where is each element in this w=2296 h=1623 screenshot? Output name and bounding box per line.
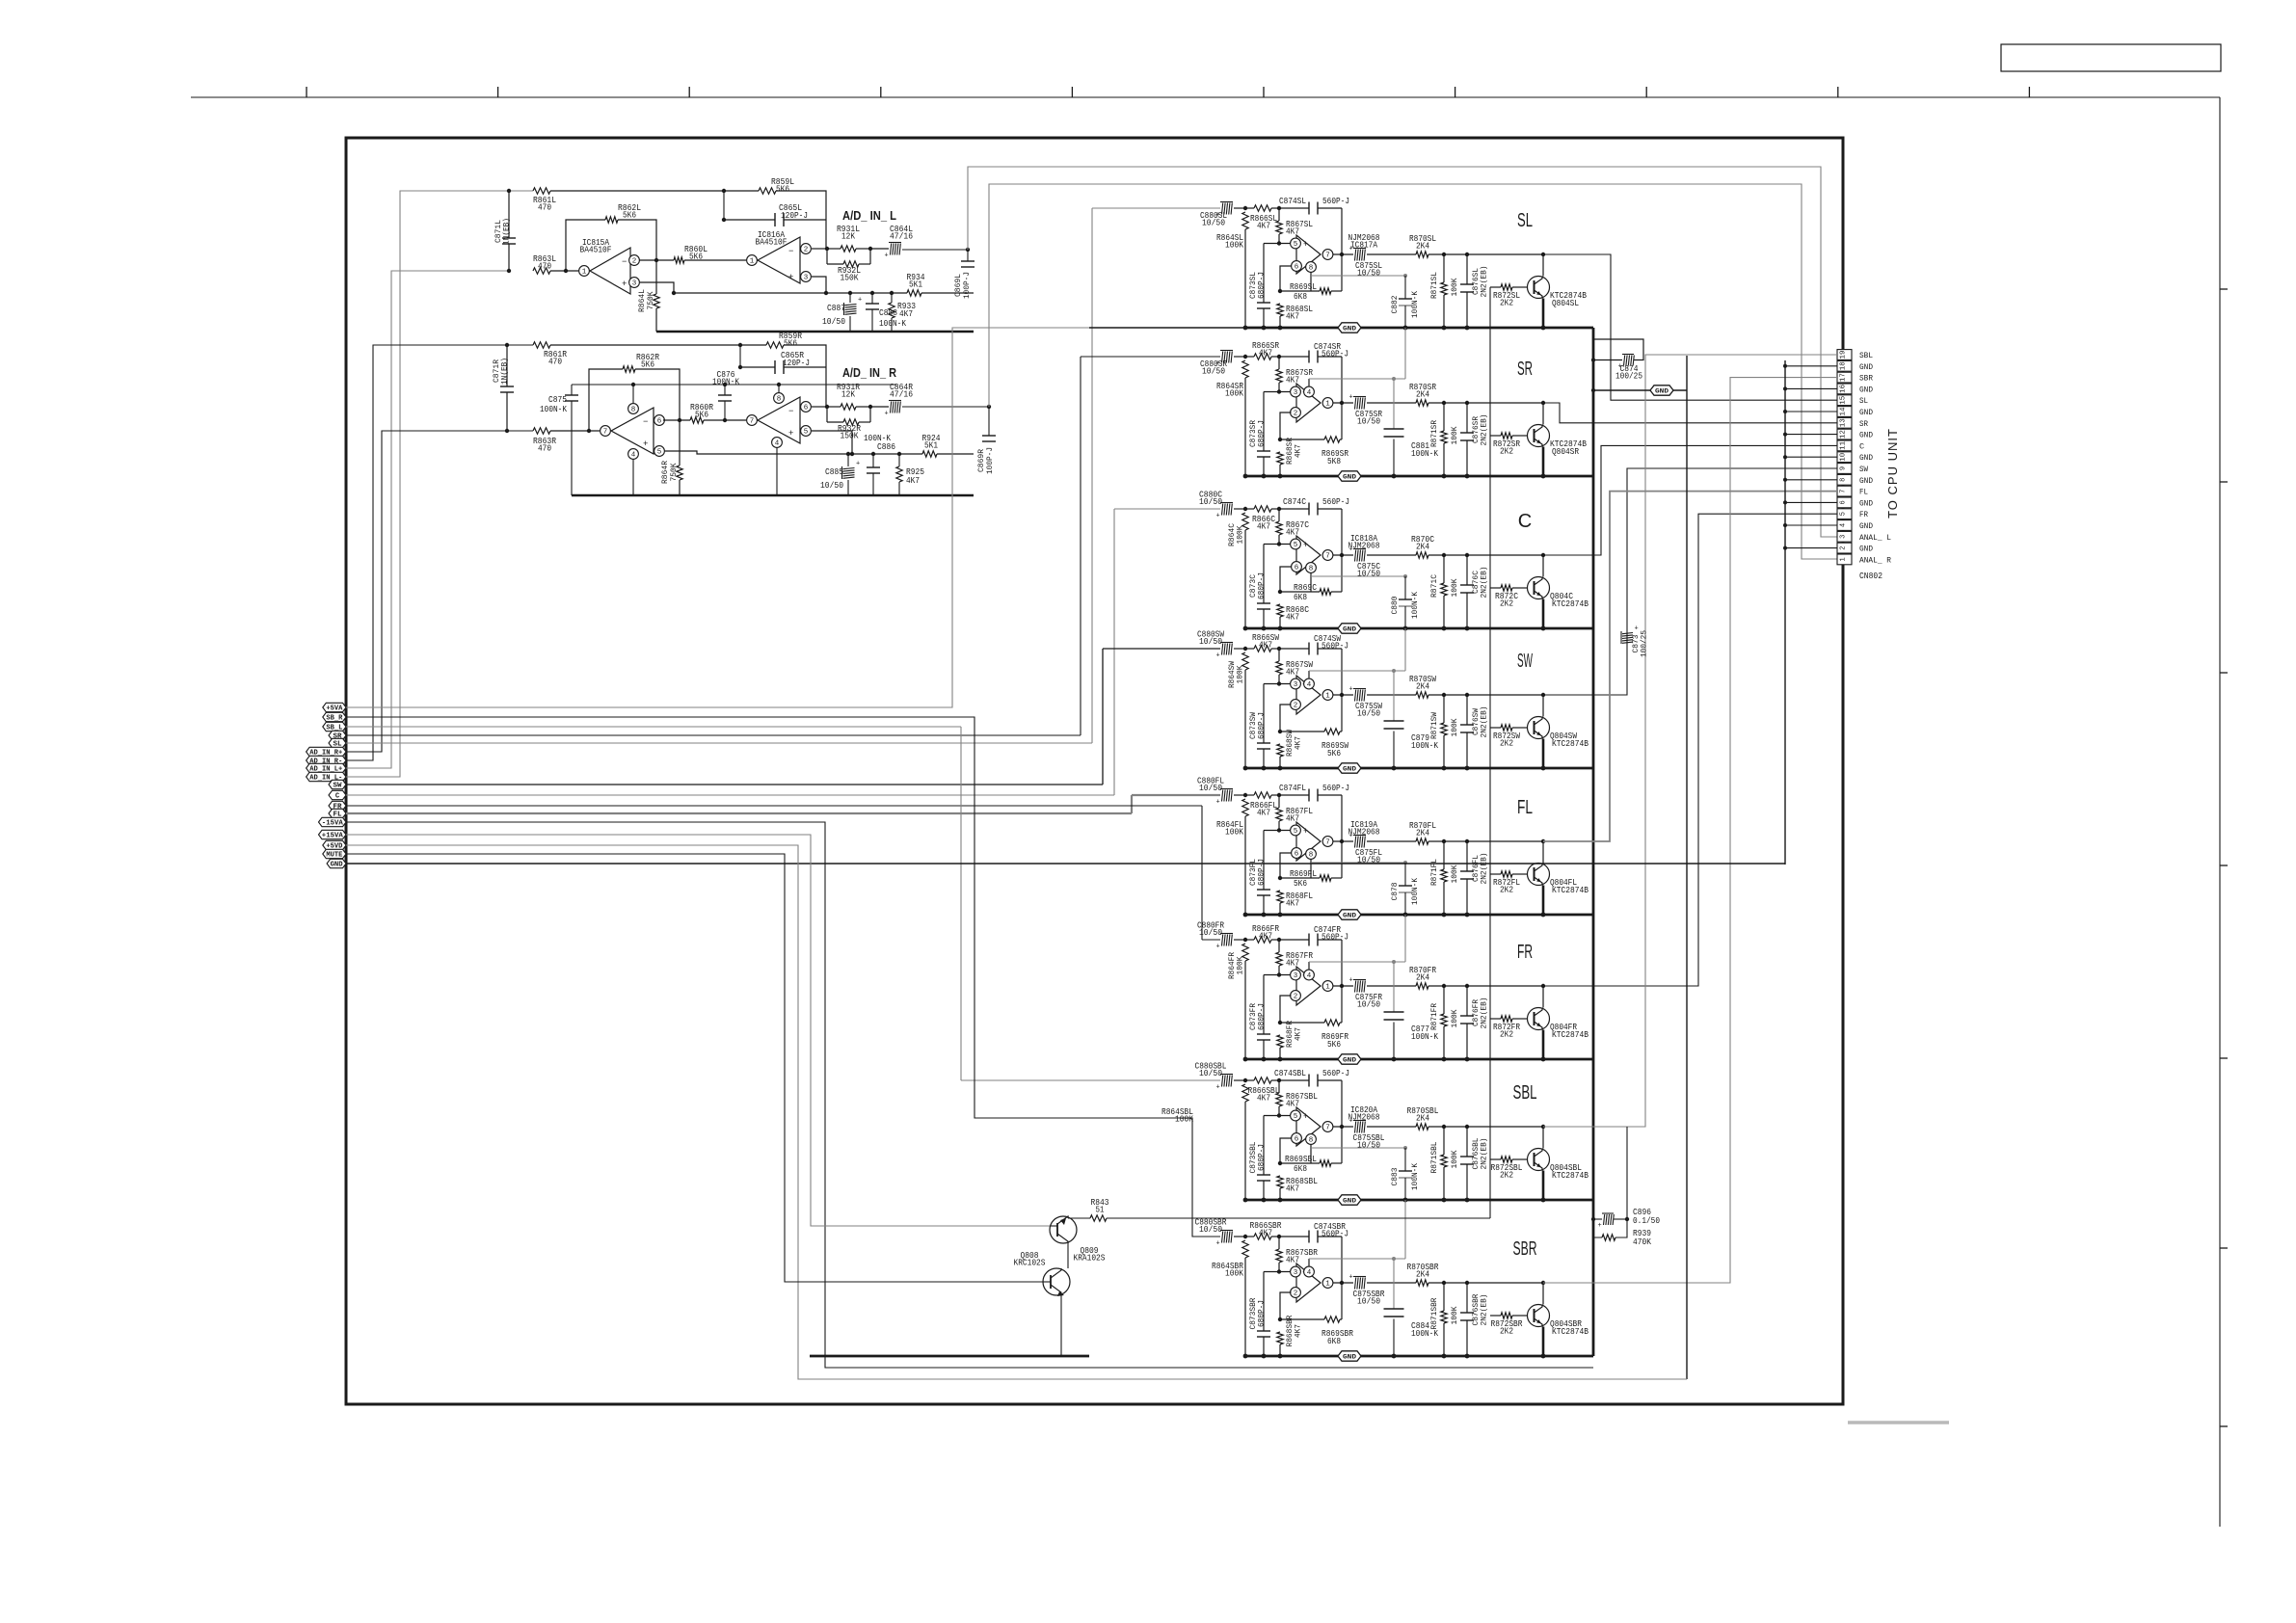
svg-text:2N2(EB): 2N2(EB) bbox=[1480, 853, 1489, 885]
capacitor C874SBR 560P-J bbox=[1279, 1236, 1309, 1237]
svg-text:7: 7 bbox=[603, 429, 608, 437]
svg-text:10/50: 10/50 bbox=[820, 481, 843, 491]
svg-text:Q804SL: Q804SL bbox=[1552, 298, 1579, 308]
wire AD L out to riser bbox=[902, 249, 968, 251]
wire input SBL bbox=[961, 1079, 1220, 1081]
resistor R843 51 bbox=[1068, 1217, 1090, 1219]
resistor R931R 12K bbox=[827, 406, 841, 408]
svg-text:SBR: SBR bbox=[1513, 1238, 1537, 1260]
svg-text:12: 12 bbox=[1840, 430, 1848, 439]
svg-text:5K6: 5K6 bbox=[776, 183, 789, 194]
svg-text:560P-J: 560P-J bbox=[1322, 1068, 1349, 1078]
svg-text:GND: GND bbox=[1343, 626, 1356, 634]
svg-text:C: C bbox=[1859, 441, 1864, 451]
wire input FL bbox=[1132, 794, 1220, 796]
svg-text:100K: 100K bbox=[1225, 387, 1243, 398]
wire SR out to pin 13 bbox=[1543, 403, 1837, 423]
resistor R859L 5K6 bbox=[724, 190, 759, 192]
capacitor C875C 10/50 bbox=[1333, 554, 1353, 556]
svg-text:8: 8 bbox=[777, 396, 782, 404]
GND bus SBL bbox=[1245, 1199, 1593, 1202]
op-amp IC FR bbox=[1296, 967, 1321, 1005]
svg-text:5: 5 bbox=[1840, 512, 1848, 516]
resistor R867SL 4K7 bbox=[1278, 208, 1280, 221]
svg-text:+: + bbox=[1216, 799, 1220, 807]
svg-text:3: 3 bbox=[804, 275, 809, 282]
svg-text:2K4: 2K4 bbox=[1416, 1268, 1429, 1279]
wire pin- SBL bbox=[1280, 1138, 1292, 1163]
svg-text:−: − bbox=[788, 247, 793, 256]
wire pin- FL bbox=[1280, 853, 1292, 878]
ground symbol SW bbox=[1338, 763, 1361, 773]
svg-text:5: 5 bbox=[1294, 1113, 1298, 1121]
svg-text:100N-K: 100N-K bbox=[1410, 1162, 1420, 1190]
wire pin4 SBR bbox=[1308, 1259, 1310, 1266]
input tag -15VA bbox=[319, 817, 347, 826]
resistor R864FR 100K bbox=[1242, 944, 1248, 961]
svg-text:680P-J: 680P-J bbox=[1257, 1003, 1267, 1030]
svg-text:7: 7 bbox=[1325, 1125, 1330, 1132]
capacitor C880SL 10/50 bbox=[1220, 201, 1233, 203]
svg-text:R871SR: R871SR bbox=[1429, 420, 1439, 447]
wire pin8 C bbox=[1310, 573, 1312, 593]
svg-text:4K7: 4K7 bbox=[1286, 812, 1299, 823]
ground symbol SL bbox=[1338, 323, 1361, 333]
resistor R871FR 100K bbox=[1443, 986, 1445, 1014]
resistor R931L 12K bbox=[827, 248, 841, 250]
capacitor C874C 560P-J bbox=[1279, 508, 1309, 510]
resistor R924 5K1 bbox=[922, 451, 937, 457]
resistor R872SW 2K2 bbox=[1490, 727, 1501, 729]
capacitor C875SBL 10/50 bbox=[1333, 1126, 1353, 1128]
svg-text:100N-K: 100N-K bbox=[1410, 591, 1420, 619]
wire +5VD rail bbox=[346, 845, 1687, 1379]
svg-text:100K: 100K bbox=[1450, 865, 1459, 884]
transistor Q804FL KTC2874B bbox=[1528, 864, 1550, 886]
wire feed SBL from tag bbox=[346, 726, 961, 728]
svg-text:C886: C886 bbox=[877, 442, 895, 452]
resistor R866SL 4K7 bbox=[1245, 207, 1254, 209]
svg-text:KTC2874B: KTC2874B bbox=[1552, 1326, 1589, 1337]
wire output SBR bbox=[1428, 1282, 1543, 1284]
svg-text:C874C: C874C bbox=[1283, 496, 1306, 507]
svg-text:R871SW: R871SW bbox=[1429, 711, 1439, 739]
svg-text:3: 3 bbox=[1294, 1269, 1298, 1277]
GND bus SL bbox=[1089, 327, 1245, 329]
wire AGND R bus bbox=[572, 494, 974, 497]
page divider mark bbox=[1848, 1421, 1949, 1424]
svg-text:100N-K: 100N-K bbox=[864, 434, 892, 443]
svg-text:470: 470 bbox=[538, 260, 551, 271]
svg-text:SB_R: SB_R bbox=[326, 715, 343, 723]
resistor R869FL 5K6 bbox=[1278, 876, 1282, 880]
wire pin+ SBL bbox=[1264, 1115, 1291, 1117]
wire pin4 gray SBR bbox=[1309, 1258, 1405, 1260]
svg-text:SW: SW bbox=[1859, 465, 1869, 474]
svg-text:GND: GND bbox=[1859, 521, 1873, 531]
resistor R868SL 4K7 bbox=[1277, 304, 1283, 316]
resistor R868SR 4K7 bbox=[1277, 452, 1283, 465]
svg-text:10/50: 10/50 bbox=[1199, 927, 1222, 938]
GND bus SR bbox=[1245, 475, 1593, 478]
svg-text:2K2: 2K2 bbox=[1500, 598, 1513, 608]
svg-text:C887: C887 bbox=[827, 304, 845, 313]
svg-text:2N2(EB): 2N2(EB) bbox=[1480, 1294, 1489, 1326]
wire AD R out to riser bbox=[902, 406, 989, 408]
svg-text:12K: 12K bbox=[841, 388, 855, 399]
wire pin4 FR bbox=[1308, 962, 1310, 970]
wire pin4 SW bbox=[1308, 671, 1310, 678]
svg-text:C874SL: C874SL bbox=[1279, 196, 1306, 206]
svg-text:GND: GND bbox=[1343, 913, 1356, 920]
capacitor C885 10/50 bbox=[846, 452, 850, 456]
capacitor C873SBL 680P-J bbox=[1263, 1116, 1265, 1176]
svg-text:5K1: 5K1 bbox=[909, 279, 922, 289]
svg-text:4K7: 4K7 bbox=[1286, 611, 1299, 622]
svg-text:4K7: 4K7 bbox=[1259, 1227, 1272, 1237]
svg-text:4K7: 4K7 bbox=[1257, 520, 1270, 531]
svg-text:100/25: 100/25 bbox=[1615, 370, 1642, 381]
svg-text:C880: C880 bbox=[1390, 597, 1400, 615]
resistor R871C 100K bbox=[1443, 555, 1445, 583]
svg-text:2: 2 bbox=[632, 258, 637, 266]
svg-text:10/50: 10/50 bbox=[1199, 1224, 1222, 1235]
node AD_IN_L- riser bbox=[346, 191, 533, 777]
svg-text:11: 11 bbox=[1840, 441, 1848, 450]
svg-text:5K6: 5K6 bbox=[784, 337, 797, 348]
capacitor C887 10/50 bbox=[848, 291, 852, 295]
svg-text:GND: GND bbox=[1859, 545, 1873, 554]
capacitor C873FR 680P-J bbox=[1263, 975, 1265, 1035]
svg-text:100K: 100K bbox=[1225, 826, 1243, 837]
resistor R869SBL 6K8 bbox=[1278, 1161, 1282, 1165]
svg-text:GND: GND bbox=[1343, 1057, 1356, 1065]
svg-text:13: 13 bbox=[1840, 418, 1848, 427]
transistor Q804SW KTC2874B bbox=[1528, 717, 1550, 739]
svg-text:5K1: 5K1 bbox=[924, 439, 938, 450]
svg-text:R871FL: R871FL bbox=[1429, 859, 1439, 886]
svg-text:680P-J: 680P-J bbox=[1257, 572, 1267, 599]
ground symbol SR bbox=[1338, 471, 1361, 481]
resistor R866C 4K7 bbox=[1245, 508, 1254, 510]
svg-text:14: 14 bbox=[1840, 408, 1848, 416]
capacitor C875SR 10/50 bbox=[1333, 402, 1353, 404]
GND ladder vertical bbox=[1592, 328, 1595, 1356]
capacitor C896 0.1/50 bbox=[1591, 1217, 1595, 1221]
resistor R871FL 100K bbox=[1443, 841, 1445, 869]
svg-text:GND: GND bbox=[1655, 388, 1669, 396]
wire pin2 to R931L bbox=[812, 248, 827, 250]
wire pin6 to R931R bbox=[812, 406, 827, 408]
svg-text:100N-K: 100N-K bbox=[1410, 877, 1420, 905]
resistor R864L 750K bbox=[655, 260, 657, 294]
svg-text:5: 5 bbox=[1294, 828, 1298, 836]
svg-text:KTC2874B: KTC2874B bbox=[1552, 738, 1589, 749]
svg-text:750K: 750K bbox=[669, 463, 679, 482]
svg-text:4K7: 4K7 bbox=[1259, 639, 1272, 650]
wire C out to pin 11 bbox=[1543, 445, 1837, 555]
svg-text:6: 6 bbox=[1295, 851, 1299, 859]
svg-text:2N2(EB): 2N2(EB) bbox=[1480, 414, 1489, 446]
svg-text:6: 6 bbox=[1295, 565, 1299, 572]
wire feedback vertical FR bbox=[1341, 940, 1343, 986]
wire feed C from tag bbox=[346, 794, 1114, 796]
wire output SBL bbox=[1428, 1126, 1543, 1128]
svg-text:FL: FL bbox=[1517, 797, 1533, 818]
svg-text:10/50: 10/50 bbox=[1357, 267, 1380, 278]
svg-text:750K: 750K bbox=[646, 291, 655, 310]
capacitor C876 100N-K bbox=[723, 383, 727, 386]
svg-text:10/50: 10/50 bbox=[1199, 496, 1222, 507]
wire output FR bbox=[1428, 985, 1543, 987]
svg-text:10/50: 10/50 bbox=[1357, 1139, 1380, 1150]
svg-text:6: 6 bbox=[1295, 1136, 1299, 1144]
resistor R867SBL 4K7 bbox=[1278, 1080, 1280, 1093]
svg-text:SW: SW bbox=[1517, 651, 1533, 672]
resistor R861R 470 bbox=[533, 342, 550, 348]
svg-text:10/50: 10/50 bbox=[1199, 783, 1222, 793]
wire FR out to pin 5 bbox=[1543, 514, 1837, 986]
capacitor C876SL 2N2(EB) bbox=[1466, 254, 1468, 284]
capacitor C881 100N-K bbox=[1393, 379, 1395, 429]
svg-text:FL: FL bbox=[1859, 488, 1868, 497]
svg-text:2: 2 bbox=[1294, 994, 1298, 1001]
resistor R869SR 5K8 bbox=[1278, 438, 1282, 441]
svg-text:+: + bbox=[1349, 546, 1353, 554]
wire AGND L bus bbox=[656, 331, 974, 333]
capacitor C865R 120P-J bbox=[739, 345, 741, 367]
wire output SR bbox=[1428, 402, 1543, 404]
svg-text:+: + bbox=[1216, 1240, 1220, 1248]
svg-text:120P-J: 120P-J bbox=[781, 211, 808, 221]
svg-text:16: 16 bbox=[1840, 385, 1848, 393]
input tag SW bbox=[329, 780, 346, 788]
transistor Q808 KRC102S bbox=[1043, 1268, 1070, 1295]
capacitor C871R bbox=[506, 345, 508, 386]
ground symbol FL bbox=[1338, 910, 1361, 919]
svg-text:100P-J: 100P-J bbox=[985, 447, 995, 474]
svg-text:7: 7 bbox=[1325, 553, 1330, 561]
svg-text:+: + bbox=[1349, 833, 1353, 840]
svg-text:7: 7 bbox=[1325, 839, 1330, 847]
svg-text:+: + bbox=[1349, 977, 1353, 985]
svg-text:4: 4 bbox=[1307, 1269, 1312, 1277]
svg-text:SBL: SBL bbox=[1513, 1082, 1537, 1104]
wire to C865L corner bbox=[776, 191, 826, 249]
svg-text:100N-K: 100N-K bbox=[1410, 290, 1420, 318]
svg-text:8: 8 bbox=[1309, 1137, 1314, 1145]
svg-text:+: + bbox=[643, 439, 648, 449]
wire fb gray SL bbox=[1311, 275, 1405, 277]
svg-text:100K: 100K bbox=[1236, 665, 1245, 684]
wire input SL bbox=[1092, 207, 1220, 209]
svg-text:2N2(EB): 2N2(EB) bbox=[1480, 706, 1489, 738]
capacitor C873SR 680P-J bbox=[1263, 392, 1265, 452]
svg-text:SR: SR bbox=[1517, 359, 1533, 380]
resistor R870SBL 2K4 bbox=[1416, 1124, 1428, 1130]
svg-text:4K7: 4K7 bbox=[1286, 1098, 1299, 1108]
wire pin- SL bbox=[1280, 266, 1292, 291]
svg-text:5: 5 bbox=[1294, 241, 1298, 249]
svg-text:8: 8 bbox=[1309, 265, 1314, 273]
capacitor C865L 120P-J bbox=[723, 191, 725, 220]
capacitor C864L 47/16 bbox=[870, 248, 889, 250]
wire pin- SR bbox=[1280, 412, 1292, 439]
svg-text:100N-K: 100N-K bbox=[540, 405, 568, 414]
wire pin4 gray FR bbox=[1309, 961, 1405, 963]
wire input SR bbox=[1081, 356, 1220, 358]
power pin 8 IC816B bbox=[774, 393, 785, 404]
wire fb gray SBL bbox=[1311, 1147, 1405, 1149]
svg-text:Q804SR: Q804SR bbox=[1552, 446, 1579, 457]
svg-text:2K4: 2K4 bbox=[1416, 680, 1429, 691]
svg-text:51: 51 bbox=[1096, 1204, 1105, 1214]
svg-text:100N-K: 100N-K bbox=[1411, 740, 1438, 751]
svg-text:10/50: 10/50 bbox=[822, 317, 845, 327]
GND bus FL bbox=[1245, 914, 1593, 917]
wire pin+ SW bbox=[1264, 683, 1291, 685]
input tag SR bbox=[329, 731, 346, 739]
svg-text:4K7: 4K7 bbox=[1286, 1254, 1299, 1264]
svg-text:2: 2 bbox=[1294, 703, 1298, 710]
svg-text:+: + bbox=[1598, 1222, 1602, 1230]
svg-text:+: + bbox=[788, 429, 793, 439]
svg-text:560P-J: 560P-J bbox=[1322, 641, 1348, 652]
wire output SL bbox=[1428, 253, 1543, 255]
resistor R861L 470 bbox=[533, 188, 550, 194]
svg-text:10/50: 10/50 bbox=[1202, 217, 1225, 227]
wire pin8 FL bbox=[1310, 860, 1312, 879]
svg-text:2K2: 2K2 bbox=[1500, 1169, 1513, 1180]
capacitor C880FR 10/50 bbox=[1220, 933, 1233, 935]
capacitor C864R 47/16 bbox=[870, 406, 889, 408]
svg-text:680P-J: 680P-J bbox=[1257, 1144, 1267, 1171]
svg-text:TO CPU UNIT: TO CPU UNIT bbox=[1885, 428, 1900, 519]
wire pin+ FL bbox=[1264, 830, 1291, 832]
svg-text:C878: C878 bbox=[1390, 883, 1400, 901]
resistor R872SBL 2K2 bbox=[1490, 1158, 1501, 1160]
svg-text:C874SBL: C874SBL bbox=[1274, 1068, 1306, 1078]
svg-text:10/50: 10/50 bbox=[1357, 1295, 1380, 1306]
svg-text:470: 470 bbox=[538, 442, 551, 453]
svg-text:KTC2874B: KTC2874B bbox=[1552, 599, 1589, 609]
capacitor C869R 100P-J bbox=[988, 407, 990, 436]
svg-text:47/16: 47/16 bbox=[890, 230, 913, 241]
svg-text:+: + bbox=[1303, 541, 1308, 550]
svg-text:4K7: 4K7 bbox=[1286, 897, 1299, 908]
resistor R870SBR 2K4 bbox=[1416, 1280, 1428, 1286]
capacitor C876FR 2N2(EB) bbox=[1466, 986, 1468, 1016]
wire pin3p IC816A bbox=[812, 277, 826, 293]
svg-text:2N2(EB): 2N2(EB) bbox=[1480, 266, 1489, 298]
capacitor C877 100N-K bbox=[1393, 962, 1395, 1012]
input tag FR bbox=[329, 801, 346, 810]
svg-text:1: 1 bbox=[1325, 984, 1330, 992]
input tag +5VD bbox=[323, 840, 346, 849]
svg-text:+: + bbox=[1216, 944, 1220, 951]
wire feedback vertical SL bbox=[1341, 208, 1343, 254]
wire MUTE line bbox=[346, 854, 1043, 1282]
svg-text:2: 2 bbox=[804, 247, 809, 254]
svg-text:100K: 100K bbox=[1450, 278, 1459, 297]
svg-text:6K8: 6K8 bbox=[1294, 592, 1307, 602]
capacitor C873SL 680P-J bbox=[1263, 244, 1265, 304]
svg-text:12K: 12K bbox=[841, 230, 855, 241]
svg-text:100K: 100K bbox=[1236, 956, 1245, 975]
svg-text:R871FR: R871FR bbox=[1429, 1003, 1439, 1030]
svg-text:SW: SW bbox=[334, 783, 343, 790]
transistor Q804SBR KTC2874B bbox=[1528, 1305, 1550, 1327]
wire feed SW from tag bbox=[346, 784, 1103, 785]
svg-text:5K6: 5K6 bbox=[695, 409, 708, 419]
svg-text:5K6: 5K6 bbox=[689, 251, 703, 261]
capacitor C879 100N-K bbox=[1393, 671, 1395, 721]
svg-text:470: 470 bbox=[548, 356, 562, 366]
svg-text:470K: 470K bbox=[1633, 1237, 1652, 1247]
resistor R868FL 4K7 bbox=[1277, 891, 1283, 903]
capacitor C869L 100P-J bbox=[967, 250, 969, 261]
capacitor C875FL 10/50 bbox=[1333, 840, 1353, 842]
svg-text:KTC2874B: KTC2874B bbox=[1552, 885, 1589, 895]
svg-text:4K7: 4K7 bbox=[1286, 957, 1299, 968]
capacitor C876FL 2N2(EB) bbox=[1466, 841, 1468, 871]
svg-text:+: + bbox=[885, 411, 889, 418]
svg-text:560P-J: 560P-J bbox=[1322, 496, 1349, 507]
resistor R870FL 2K4 bbox=[1416, 838, 1428, 844]
svg-text:10: 10 bbox=[1840, 453, 1848, 462]
input tag +5VA bbox=[323, 703, 346, 711]
svg-text:680P-J: 680P-J bbox=[1257, 1300, 1267, 1327]
svg-text:5K6: 5K6 bbox=[1327, 748, 1341, 758]
svg-text:2K4: 2K4 bbox=[1416, 1112, 1429, 1123]
resistor R932R 150K bbox=[826, 407, 828, 422]
capacitor C888 100N-K bbox=[870, 291, 874, 295]
svg-text:4K7: 4K7 bbox=[906, 476, 920, 486]
svg-text:+: + bbox=[788, 273, 793, 282]
wire feedback vertical FL bbox=[1341, 795, 1343, 841]
capacitor C873SBR 680P-J bbox=[1263, 1272, 1265, 1332]
capacitor C886 100N-K bbox=[871, 452, 875, 456]
capacitor C876SR 2N2(EB) bbox=[1466, 403, 1468, 433]
input tag C bbox=[329, 790, 346, 799]
wire pin+ FR bbox=[1264, 974, 1291, 976]
svg-text:6K8: 6K8 bbox=[1294, 1163, 1307, 1174]
input tag AD_IN_L+ bbox=[307, 763, 346, 772]
svg-text:4K7: 4K7 bbox=[1294, 444, 1303, 458]
svg-text:1: 1 bbox=[1325, 1281, 1330, 1289]
svg-text:150K: 150K bbox=[841, 272, 859, 282]
svg-text:100K: 100K bbox=[1450, 1150, 1459, 1169]
svg-text:15: 15 bbox=[1840, 396, 1848, 405]
capacitor C875SL 10/50 bbox=[1333, 253, 1353, 255]
resistor R869SL 6K8 bbox=[1278, 289, 1282, 293]
svg-text:2: 2 bbox=[1840, 545, 1848, 549]
svg-text:100N-K: 100N-K bbox=[1411, 448, 1438, 459]
wire pin- SW bbox=[1280, 705, 1292, 732]
svg-text:19: 19 bbox=[1840, 351, 1848, 359]
wire input R upper bbox=[550, 344, 740, 346]
svg-text:1N(EB): 1N(EB) bbox=[500, 358, 510, 385]
mid rail bbox=[572, 384, 896, 386]
svg-text:100N-K: 100N-K bbox=[1411, 1031, 1438, 1042]
capacitor C875FR 10/50 bbox=[1333, 985, 1353, 987]
svg-text:2: 2 bbox=[1294, 1290, 1298, 1298]
wire input SW bbox=[1103, 648, 1220, 650]
svg-text:1: 1 bbox=[1325, 401, 1330, 409]
power pin 4 IC815B bbox=[628, 449, 639, 460]
input tag SL bbox=[329, 738, 346, 747]
svg-text:1: 1 bbox=[1840, 557, 1848, 561]
